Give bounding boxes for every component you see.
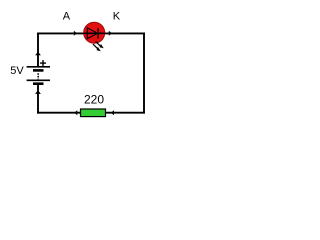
current arrow on bottom wire left of resistor (pointing left) xyxy=(74,110,77,115)
current arrow on top wire at LED cathode (pointing right) xyxy=(109,31,112,36)
current arrow on left wire below battery (pointing up) xyxy=(35,90,41,94)
LED light emission arrow 2 xyxy=(93,44,101,51)
battery dotted cell separator xyxy=(37,73,39,79)
LED light emission arrow 1 xyxy=(96,41,104,48)
wire: top net (battery + to LED anode to top-right corner) xyxy=(37,32,145,34)
LED body circle xyxy=(84,22,105,43)
wire: left lower segment (battery - plate down to bottom corner) xyxy=(37,84,39,114)
svg-text:5V: 5V xyxy=(10,65,24,77)
current arrow on left wire above battery (pointing up) xyxy=(35,52,41,56)
LED diode triangle xyxy=(87,28,97,39)
battery plate: upper short thick (-) xyxy=(33,69,44,72)
LED D1 (red, lit) xyxy=(84,22,105,51)
wire: bottom net (through resistor back to battery) xyxy=(37,112,145,114)
wire: right segment (LED cathode side down to bottom-right corner) xyxy=(143,33,145,114)
wire through LED xyxy=(84,32,105,34)
current arrow on top wire at LED anode (pointing right) xyxy=(74,31,77,36)
LED cathode bar xyxy=(97,28,99,38)
svg-text:A: A xyxy=(63,11,71,23)
current arrow on bottom wire right of resistor (pointing left) xyxy=(111,110,114,115)
resistor R1 xyxy=(81,109,106,117)
battery plate: bottom short thick xyxy=(33,82,44,85)
battery plate: lower long xyxy=(27,79,50,81)
battery plate: top long (+) xyxy=(27,66,50,68)
svg-text:220: 220 xyxy=(84,93,104,107)
battery polarity mark + xyxy=(40,60,46,66)
battery B1 (5V, two cells) xyxy=(27,67,50,84)
svg-text:K: K xyxy=(113,11,121,23)
wire: left upper segment (top corner down to battery + plate) xyxy=(37,33,39,67)
